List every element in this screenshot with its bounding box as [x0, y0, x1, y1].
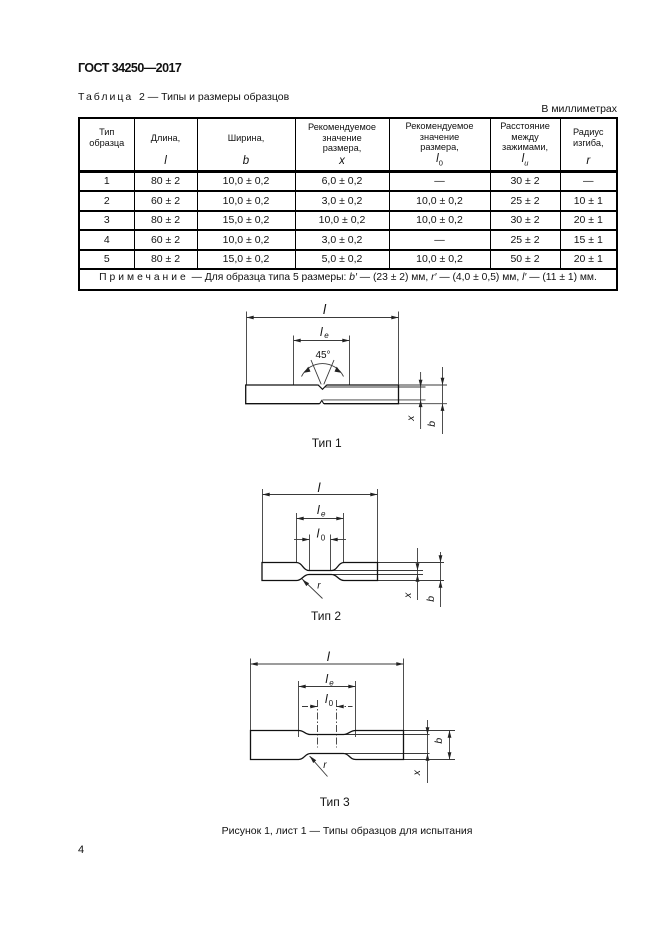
outer ext lines (type2): [378, 562, 445, 564]
dim x (type3): [427, 720, 429, 783]
dim b (type2): [440, 552, 442, 607]
units note: [0, 103, 617, 115]
specimen bar type2: [262, 563, 378, 581]
svg-text:l: l: [325, 692, 328, 706]
drawing: specimen type 1: [247, 312, 448, 435]
notch 45deg construction (type1): [311, 360, 323, 388]
svg-text:l: l: [327, 649, 331, 664]
leader r (type2): [302, 579, 323, 599]
svg-text:x: x: [405, 415, 417, 422]
inner ext lines (type2): [333, 570, 423, 572]
inner ext lines (type3): [345, 734, 430, 736]
dim x (type2): [417, 548, 419, 600]
dim b (type3): [449, 731, 451, 760]
dim l_e (type3): [299, 686, 356, 688]
inner film edge lines (type1): [323, 386, 426, 388]
dim l_0 (type3) with centerlines: [302, 706, 318, 708]
svg-text:e: e: [324, 331, 329, 340]
dim b (type1): [442, 367, 444, 434]
svg-text:Тип 1: Тип 1: [312, 436, 342, 450]
dim l (type2): [263, 494, 378, 496]
svg-text:l: l: [318, 480, 322, 495]
svg-text:l: l: [320, 325, 323, 339]
svg-text:r: r: [317, 581, 321, 592]
dim l (type1): [247, 317, 399, 319]
svg-text:45°: 45°: [315, 350, 330, 361]
leader r (type3): [310, 756, 328, 776]
header: document number: [78, 61, 181, 75]
dim l (type3): [251, 663, 404, 665]
dim l_e (type2): [297, 518, 344, 520]
svg-text:l: l: [323, 302, 327, 317]
svg-text:0: 0: [321, 534, 326, 543]
svg-text:e: e: [329, 679, 334, 688]
svg-text:b: b: [433, 738, 445, 744]
svg-text:Тип 3: Тип 3: [320, 795, 350, 809]
page number: [78, 844, 84, 856]
table 2: [78, 117, 618, 291]
svg-text:Тип 2: Тип 2: [311, 609, 341, 623]
svg-text:x: x: [411, 769, 423, 776]
table caption: [78, 91, 289, 103]
dim l_0 (type2): [294, 539, 310, 541]
dim l_e (type1): [294, 340, 350, 342]
svg-text:l: l: [325, 672, 328, 686]
outer ext lines (type3): [404, 730, 456, 732]
drawing: specimen type 3: [251, 659, 456, 784]
dim x (type1): [420, 372, 422, 429]
specimen bar type3: [251, 731, 404, 760]
drawing: specimen type 2: [263, 489, 445, 607]
svg-text:l: l: [317, 527, 320, 541]
svg-text:e: e: [321, 510, 326, 519]
figure caption: [222, 825, 473, 837]
svg-text:0: 0: [329, 699, 334, 708]
specimen bar type1: [246, 385, 399, 404]
figure drawings: [0, 300, 661, 820]
svg-text:b: b: [425, 596, 437, 602]
svg-text:l: l: [317, 503, 320, 517]
svg-text:r: r: [323, 760, 327, 771]
svg-text:b: b: [426, 421, 438, 427]
svg-text:x: x: [402, 592, 414, 599]
